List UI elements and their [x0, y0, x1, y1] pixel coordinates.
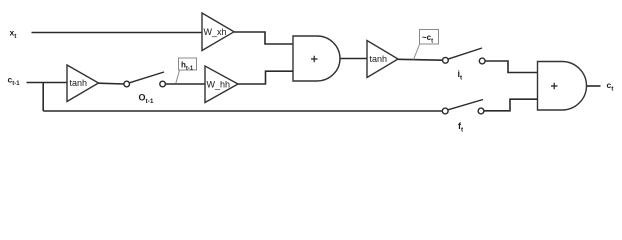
amplifier W_xh — [202, 13, 234, 51]
wire x_t to W_xh — [32, 32, 203, 34]
wire adder2 output — [587, 85, 601, 87]
wire tanh1 to switch O_t-1 — [99, 82, 125, 85]
svg-text:W_hh: W_hh — [207, 80, 231, 90]
wire c_t-1 to tanh1 — [27, 82, 68, 84]
amplifier tanh1 — [67, 65, 99, 102]
svg-text:tanh: tanh — [70, 78, 88, 88]
wire switch O to W_hh — [165, 83, 205, 85]
amplifier tanh (middle) — [367, 41, 398, 78]
junction to bottom rail — [42, 83, 44, 112]
wire W_hh to adder1 bottom input — [238, 71, 293, 84]
net flag h_t-1 — [176, 58, 197, 84]
switch O_t-1 — [124, 72, 166, 87]
wire W_xh to adder1 top input — [234, 32, 293, 44]
wire switch f_t to adder2 bottom input — [484, 99, 538, 111]
wire tanh2 to switch i_t — [398, 58, 443, 61]
svg-text:W_xh: W_xh — [204, 27, 227, 37]
svg-text:tanh: tanh — [370, 54, 388, 64]
switch i_t — [443, 48, 486, 64]
wire bottom rail c_t-1 feedback — [43, 110, 442, 112]
adder U1 (+) — [293, 36, 340, 81]
switch f_t — [442, 100, 484, 114]
wire switch i_t to adder2 top input — [485, 61, 537, 73]
adder U2 (+) — [538, 62, 587, 111]
net flag ~c_t — [414, 30, 439, 60]
amplifier W_hh — [205, 66, 238, 103]
wire adder1 to tanh2 — [340, 58, 367, 60]
